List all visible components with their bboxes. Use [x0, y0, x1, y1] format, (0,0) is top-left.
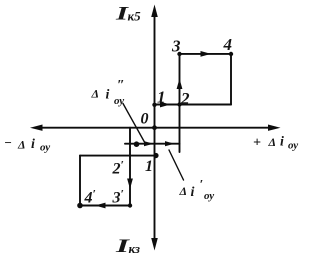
svg-text:3: 3: [171, 37, 181, 56]
svg-text:кз: кз: [129, 241, 141, 256]
svg-text:1: 1: [157, 88, 166, 107]
svg-text:Δ: Δ: [91, 87, 100, 101]
svg-text:−: −: [4, 135, 12, 150]
svg-text:оу: оу: [40, 141, 50, 153]
svg-text:″: ″: [117, 78, 125, 93]
svg-text:оу: оу: [288, 140, 298, 152]
svg-text:2′: 2′: [112, 158, 124, 178]
svg-text:i: i: [31, 137, 35, 152]
svg-text:3′: 3′: [112, 187, 124, 207]
svg-text:оу: оу: [114, 95, 124, 107]
svg-text:Δ: Δ: [179, 184, 188, 198]
svg-text:2: 2: [180, 89, 190, 108]
svg-text:0: 0: [141, 111, 149, 128]
svg-text:i: i: [191, 185, 195, 200]
svg-text:Δ: Δ: [268, 135, 277, 149]
svg-text:Δ: Δ: [17, 138, 26, 152]
svg-text:4: 4: [223, 35, 233, 54]
svg-text:4′: 4′: [84, 187, 96, 207]
svg-text:к5: к5: [128, 9, 142, 24]
svg-text:+: +: [253, 136, 261, 151]
svg-text:i: i: [106, 88, 110, 103]
svg-text:оу: оу: [204, 190, 214, 202]
svg-text:′: ′: [200, 177, 204, 192]
svg-text:i: i: [280, 135, 284, 150]
